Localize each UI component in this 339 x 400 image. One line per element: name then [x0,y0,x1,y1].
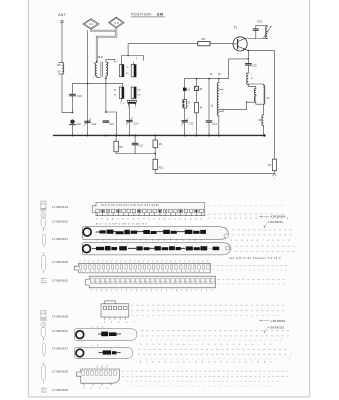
svg-text:6: 6 [177,344,178,346]
svg-text:C17: C17 [139,144,144,147]
capacitor C17 [132,135,143,153]
trimmer capacitor C1b [69,120,81,127]
coil 45 [258,115,263,126]
svg-text:17-800/162: 17-800/162 [52,388,68,392]
resistor R9 [153,140,163,148]
wire [128,122,130,135]
svg-text:ANT: ANT [58,13,66,17]
svg-text:17-800/134: 17-800/134 [52,205,68,209]
node E junction [245,49,248,50]
svg-text:5: 5 [221,362,222,364]
diamond tag 4.6 [109,17,125,28]
svg-text:C15: C15 [109,123,114,126]
capacitor C6 block [194,86,203,91]
svg-text:4 3M 800/64: 4 3M 800/64 [270,319,285,323]
svg-text:8: 8 [126,271,127,273]
svg-text:C16: C16 [77,94,82,98]
wire [208,123,210,136]
wire coil to C14 [128,105,130,120]
resistor R6 [198,37,210,46]
svg-text:3: 3 [221,344,222,346]
wire coil 45 to bus [263,126,264,136]
IF coil box 1 [117,61,136,77]
capacitor C25 [246,51,258,73]
svg-text:4: 4 [122,271,123,273]
junction arrow [273,174,277,176]
osc transformer secondary winding 44 [219,84,270,110]
svg-text:8: 8 [181,271,182,273]
svg-text:C10: C10 [189,123,194,126]
emitter coil L6 [247,73,254,85]
wire T1 collector to tank [245,38,267,40]
svg-text:2: 2 [214,344,215,346]
transformer L2 primary [93,61,100,78]
pcb strip S5 pin numbers [91,290,213,292]
wire box2 left pin [122,84,124,87]
svg-text:1: 1 [264,344,265,346]
svg-text:8: 8 [258,362,259,364]
wire [72,125,74,135]
ghost continuation of strip S3 [235,245,295,247]
capacitor C12 [206,121,217,126]
wire [184,122,186,135]
pcb strip S3 components [96,247,104,250]
pcb strip S1 outline [92,203,205,216]
svg-text:6: 6 [103,271,104,273]
annotation arrow 4.2M [264,220,284,228]
antenna terminal ANT [58,13,66,23]
svg-text:b: b [183,344,184,346]
svg-text:B Dr D D NR D AB D B DB N D: B Dr D D NR D AB D B DB N D [96,223,148,226]
small coupling coil [127,100,136,110]
ghost pin text rows [140,343,271,346]
svg-text:T1: T1 [234,26,238,30]
pcb strip S3 trace line [93,248,219,250]
pcb strip LA connector block [101,301,129,317]
annotation arrow lower 4.3M [259,319,285,323]
svg-text:3: 3 [185,271,186,273]
svg-text:C25: C25 [252,64,257,68]
wire column 2 [196,79,198,87]
tool icon small tube [42,339,45,357]
capacitor C16 [70,84,83,113]
tank top wire [256,25,267,27]
wire [196,91,198,103]
trimmer capacitor C10 [181,118,193,126]
svg-text:6: 6 [183,362,184,364]
svg-text:4: 4 [233,362,234,364]
svg-text:8: 8 [153,271,154,273]
svg-text:17-800/101: 17-800/101 [52,329,68,333]
pcb strip LB components [101,332,108,337]
svg-text:C12: C12 [212,123,217,126]
wire emitter node to right rail [248,51,274,160]
svg-text:5: 5 [203,271,204,273]
capacitor C in tank F21 [253,26,258,39]
svg-text:8: 8 [140,362,141,364]
trimmer capacitor C1a [84,118,97,126]
svg-text:4 3M 800/64: 4 3M 800/64 [270,215,285,219]
svg-text:17-800/167: 17-800/167 [52,347,68,351]
svg-text:2 8 b: 2 8 b [92,326,104,328]
svg-text:4.1: 4.1 [89,22,94,26]
pcb strip S1 pads [96,209,204,213]
pcb strip S1 pin numbers [96,218,202,220]
svg-text:5: 5 [85,271,86,273]
svg-text:5: 5 [171,344,172,346]
bias rail node 16/18 [185,73,229,79]
wire transformer tap to osc coil [219,102,256,109]
svg-text:8: 8 [108,271,109,273]
tool icon clip [42,387,47,393]
ghost continuation of strip S5 [217,279,285,281]
svg-text:R11: R11 [159,166,164,169]
svg-text:5: 5 [112,271,113,273]
node A junction [72,112,74,114]
svg-text:8: 8 [163,271,164,273]
pcb strip S4 slanted labels [79,260,208,263]
strip S3 index curl [226,246,230,250]
pcb strip S3 outline [82,243,231,255]
svg-text:2: 2 [152,344,153,346]
wire R6 to T1 base [210,43,233,45]
svg-text:4: 4 [171,362,172,364]
svg-text:4 2M 800/102: 4 2M 800/102 [268,325,285,329]
svg-text:1 2 3 4 5: 1 2 3 4 5 [104,322,138,324]
tool icon key (cylinder) [41,201,46,211]
pcb strip LC mounting hole [76,349,84,357]
transformer L2 core [100,62,102,77]
svg-text:17-800/150: 17-800/150 [52,370,68,374]
pcb strip LB mounting hole [76,331,84,339]
tool icon long tube [42,362,46,384]
low rail wire [116,153,155,155]
wire node B down [105,78,107,112]
transformer L2 secondary [106,60,115,79]
bus junction dots [71,134,265,137]
pcb strip S2 pin marks below [97,240,203,242]
svg-text:8: 8 [190,271,191,273]
ghost continuation of strip S1 [208,205,283,207]
svg-text:8: 8 [90,271,91,273]
wire bus to R8 [115,135,117,141]
pcb strip S1 pin stubs [98,213,202,216]
svg-text:17-800/158: 17-800/158 [52,315,68,319]
bottom rail wire [155,172,274,174]
svg-text:F21: F21 [257,20,263,24]
svg-text:3: 3 [94,271,95,273]
box2 bottom pins [120,99,125,106]
pcb strip LB left outline [75,329,138,341]
svg-text:EM: EM [157,12,164,16]
svg-text:17-800/150: 17-800/150 [52,260,68,264]
svg-text:7: 7 [270,362,271,364]
IF coil box 2 [114,87,142,99]
wire coil block to base rail [128,44,198,56]
svg-text:2 8 9: 2 8 9 [97,367,108,369]
ghost rows of strip LC [138,348,286,350]
wire to coil 45 [262,104,264,115]
pcb strip S5 outline [85,276,215,288]
svg-text:17-800/101: 17-800/101 [52,220,68,224]
svg-text:o 8: o 8 [92,345,100,347]
svg-text:b: b [214,362,215,364]
resistor R7 [183,100,191,109]
pcb strip S2 mounting hole [83,228,91,236]
svg-text:5: 5 [131,271,132,273]
resistor R12 [268,159,277,171]
svg-text:4 2M 800/64: 4 2M 800/64 [268,220,283,224]
svg-text:5: 5 [233,344,234,346]
ghost end slashes [280,337,292,359]
svg-text:e: e [177,362,178,364]
bridge wire over box 1 [122,56,144,63]
wire AVC h-line [73,83,123,85]
transistor T1 [233,26,247,51]
svg-text:3: 3 [159,344,160,346]
svg-text:3: 3 [140,271,141,273]
svg-text:17-800/167: 17-800/167 [52,237,68,241]
svg-text:4: 4 [227,344,228,346]
resistor R10 [195,102,203,113]
svg-text:e: e [239,362,240,364]
svg-text:8: 8 [264,362,265,364]
pcb strip S1 pad glyphs [102,210,197,212]
svg-text:17-800/162: 17-800/162 [52,279,68,283]
heavy ganged-switch link wire (double line) [91,28,116,61]
wire bias tap [228,59,248,79]
tool icon clip [42,278,47,284]
tool icon bottle [41,213,46,231]
pcb strip LC components [103,350,111,354]
svg-text:8: 8 [117,271,118,273]
osc transformer primary windings [254,88,256,102]
svg-text:5: 5 [208,344,209,346]
wire [184,108,186,120]
node C junction [154,153,156,155]
svg-text:5: 5 [159,362,160,364]
svg-text:6: 6 [149,271,150,273]
svg-text:8: 8 [199,271,200,273]
tool icon small tube [42,229,45,247]
svg-text:POSITION: POSITION [131,12,151,16]
pcb strip S2 components [100,230,106,233]
wire R8 to low rail [115,152,117,154]
pcb strip S4 pads [79,265,209,269]
svg-text:5: 5 [270,344,271,346]
ghost continuation of strip S2 [232,229,292,231]
svg-text:7: 7 [146,362,147,364]
wire into osc transformer [248,85,256,89]
svg-text:C14: C14 [134,122,139,125]
svg-text:n: n [190,362,191,364]
svg-text:e: e [252,344,253,346]
svg-text:1 2 3 4: 1 2 3 4 [83,388,112,390]
tool icon long tube [42,252,46,274]
svg-text:8.4: 8.4 [98,55,103,59]
ghost rows of strip LD [122,370,288,372]
tool icon key (cylinder) [41,311,46,321]
resistor R11 [153,154,164,170]
svg-text:and with a the Chamber Pin Lb: and with a the Chamber Pin Lb d [229,257,281,260]
wire R9 to node C [154,148,156,154]
svg-text:8: 8 [202,362,203,364]
wire ANT to L1 [61,23,63,62]
svg-text:5: 5 [176,271,177,273]
resistor R8 [114,141,123,152]
trimmer capacitor C14 [126,118,139,126]
wire [184,91,186,100]
svg-text:b: b [245,344,246,346]
svg-text:4.6: 4.6 [114,21,119,25]
capacitor C15 [103,121,114,126]
oscillator coil L5 [217,79,225,136]
svg-text:e: e [190,344,191,346]
svg-text:R6: R6 [202,37,206,41]
svg-text:8: 8 [99,271,100,273]
annotation arrow lower 4.2M [264,325,285,333]
svg-text:4: 4 [165,344,166,346]
svg-text:d: d [227,362,228,364]
wire L1 to node A [62,74,73,112]
wire diamond 4.1 to ground bus (AVC line) [87,31,89,136]
ground bus [54,134,265,136]
svg-text:n: n [252,362,253,364]
annotation arrow 4.3M [259,215,285,219]
title POSITION EM [131,12,164,17]
svg-text:1: 1 [202,344,203,346]
svg-text:8: 8 [81,271,82,273]
pcb strip S2 outline [82,227,228,240]
wire R11 to bottom rail [154,170,156,174]
svg-text:8: 8 [196,362,197,364]
strip S2 index diamond [224,233,229,238]
svg-text:8: 8 [172,271,173,273]
ghost rows of strip LB [141,330,289,332]
wire column 3 [208,79,210,121]
wire R12 to bottom rail [273,171,275,174]
pcb strip S2 trace line [94,231,204,233]
svg-text:6: 6 [239,344,240,346]
svg-text:d: d [165,362,166,364]
ferrite bead F16 [183,88,191,92]
pcb strip S4 outline [74,263,210,273]
wire branch to C column [106,112,117,135]
svg-text:5: 5 [158,271,159,273]
node B junction [105,77,107,79]
wire [196,113,198,136]
variable inductor in tank F21 [264,26,272,39]
pcb strip LD pads [82,371,116,376]
svg-text:6: 6 [194,271,195,273]
svg-text:7: 7 [208,362,209,364]
svg-text:6: 6 [245,362,246,364]
ghost rows of strip LA [131,304,284,306]
svg-text:8: 8 [135,271,136,273]
pcb strip S5 pads [90,279,214,284]
svg-text:b: b [152,362,153,364]
svg-text:1: 1 [140,344,141,346]
svg-text:C1a: C1a [92,123,97,126]
svg-text:4: 4 [167,271,168,273]
diamond tag 4.1 [83,19,99,30]
pcb strip S3 mounting hole [83,245,91,253]
svg-text:8: 8 [144,271,145,273]
wire bus to R9 [154,135,156,140]
svg-text:5: 5 [146,344,147,346]
pcb strip LD left outline [77,369,120,383]
svg-text:115: 115 [56,63,61,67]
antenna coil L1 [56,63,63,75]
tool icon bottle [41,322,46,340]
svg-text:C1b: C1b [76,123,81,126]
pcb strip LC left outline [75,347,133,358]
wire column 1 [184,79,186,88]
svg-text:C1b A C5 C15 C13 C15 C13 C12: C1b A C5 C15 C13 C15 C13 C12 Q12b [101,204,160,207]
